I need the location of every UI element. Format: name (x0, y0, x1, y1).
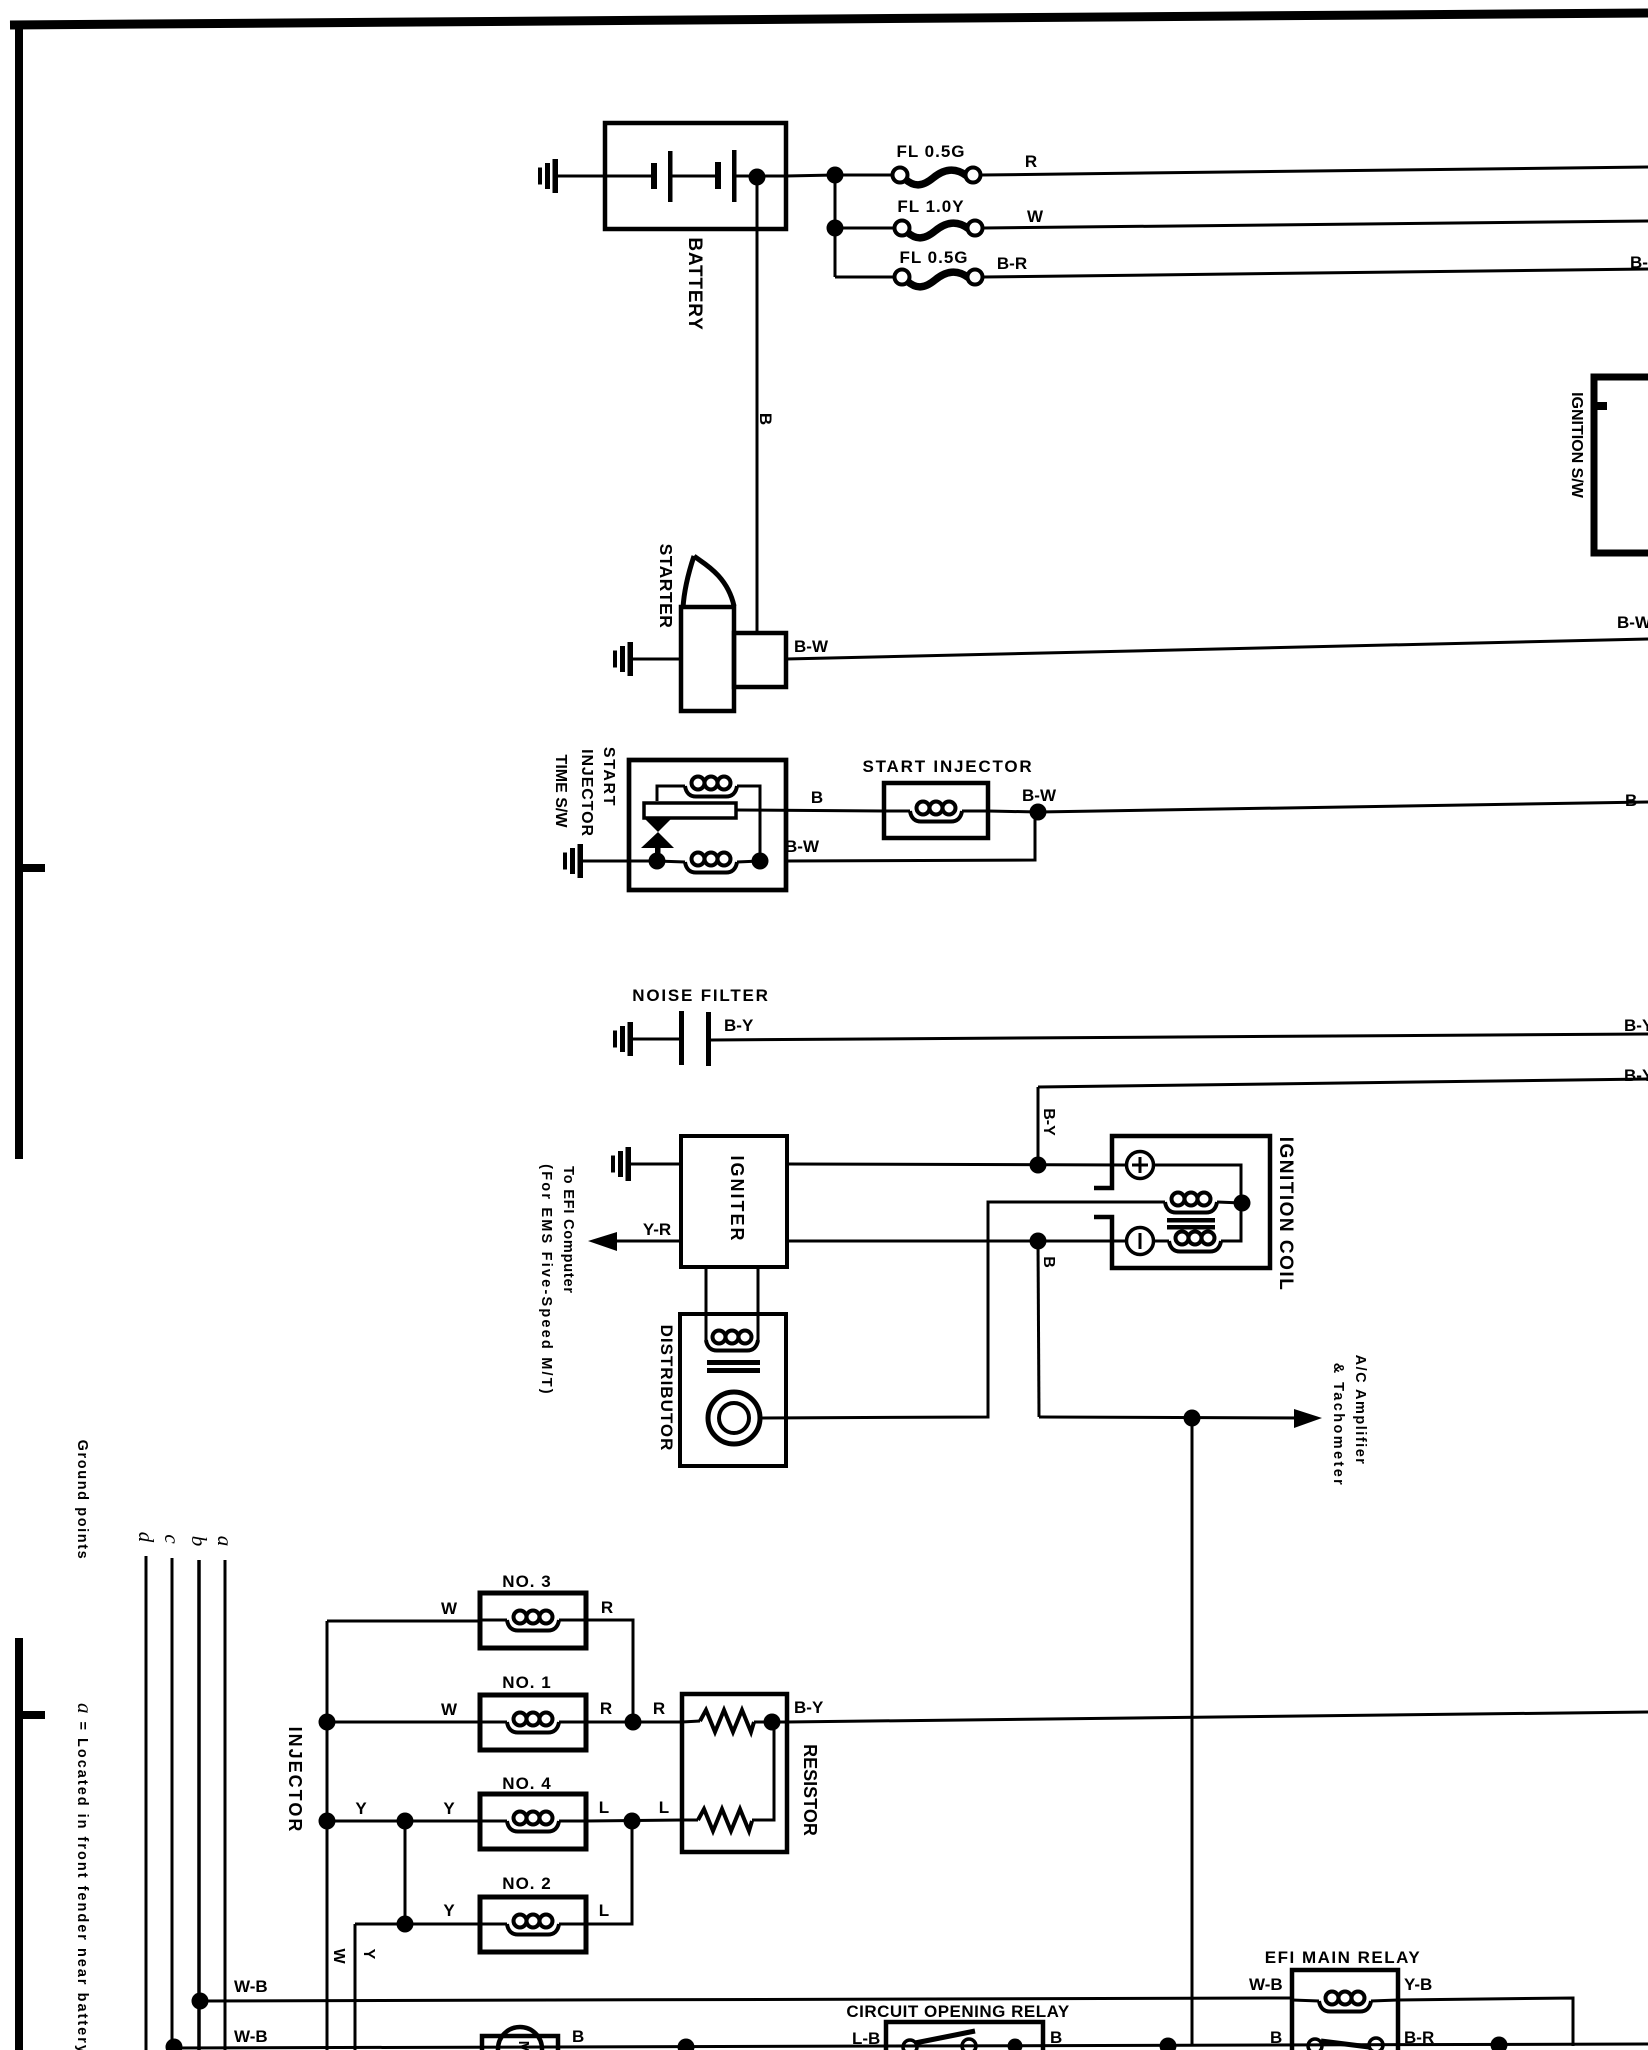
node tach junction (1184, 1410, 1201, 1427)
svg-text:B-W: B-W (1022, 786, 1057, 805)
svg-text:a: a (213, 1536, 237, 1547)
resistor element bottom (698, 1809, 752, 1831)
label R (resistor in) (653, 1699, 665, 1718)
wire NO.3 left (327, 1620, 480, 1623)
node R junction (625, 1714, 642, 1731)
wire NO.3 right (586, 1620, 633, 1722)
label STARTER (656, 544, 676, 629)
node B-R junction (1491, 2037, 1508, 2050)
wire igniter to coil minus (787, 1240, 1127, 1243)
svg-text:NO. 2: NO. 2 (502, 1874, 551, 1893)
time switch contact bar (644, 803, 736, 818)
svg-text:NO. 1: NO. 1 (502, 1673, 551, 1692)
svg-text:R: R (601, 1598, 613, 1617)
page border left upper segment (15, 21, 23, 1159)
distributor box (680, 1314, 786, 1466)
label ground point a (213, 1536, 237, 1547)
label B-W (time switch out) (785, 837, 820, 856)
label W (1027, 207, 1044, 226)
svg-text:B-W: B-W (1617, 613, 1648, 632)
svg-text:STARTER: STARTER (656, 544, 676, 629)
wire B-R to ignition switch (983, 269, 1648, 277)
svg-text:B-Y: B-Y (1624, 1066, 1648, 1085)
time switch heater coil top (685, 777, 737, 797)
svg-text:RESISTOR: RESISTOR (800, 1744, 820, 1836)
label ground point c (160, 1534, 184, 1544)
wire ground to battery (558, 175, 605, 178)
label A/C Amplifier (1352, 1355, 1368, 1466)
fuel pump motor (498, 2027, 542, 2050)
label a = Located in front fender near battery (73, 1703, 97, 2050)
svg-text:W: W (330, 1948, 347, 1964)
node ground b junction (192, 1993, 209, 2010)
svg-text:B-W: B-W (794, 637, 829, 656)
label W-B (lower) (234, 2027, 268, 2046)
resistor bottom leads (682, 1722, 774, 1820)
label FL 1.0Y (897, 197, 964, 216)
svg-text:Ground points: Ground points (74, 1440, 90, 1561)
node W junction NO.1 (319, 1714, 336, 1731)
wire W to ignition switch (983, 221, 1648, 228)
svg-text:Y: Y (443, 1901, 455, 1920)
label W (bus, rotated) (330, 1948, 347, 1964)
svg-text:Y: Y (360, 1949, 377, 1960)
start injector coil (910, 802, 962, 822)
wire R to ignition switch (981, 167, 1648, 175)
node igniter B (1030, 1233, 1047, 1250)
svg-text:M: M (515, 2041, 532, 2050)
injector NO.2 leads (480, 1923, 586, 1926)
svg-text:IGNITION S/W: IGNITION S/W (1568, 392, 1585, 499)
wire NO.1 right to resistor (586, 1721, 682, 1724)
svg-text:B-Y: B-Y (724, 1016, 754, 1035)
wire B from contact bar to start injector (736, 810, 884, 811)
start injector box (884, 783, 988, 838)
label Y (bus, rotated) (360, 1949, 377, 1960)
label Y (NO.4 outer) (355, 1799, 367, 1818)
distributor rotor (708, 1392, 760, 1444)
svg-text:DISTRIBUTOR: DISTRIBUTOR (657, 1325, 676, 1452)
label INJECTOR (time switch) (578, 749, 595, 837)
svg-text:B-R: B-R (997, 254, 1027, 273)
label START (time switch) (600, 747, 617, 807)
wire B bottom bus (174, 2044, 1648, 2048)
resistor box (682, 1694, 787, 1852)
battery label (684, 237, 705, 330)
svg-text:FL 0.5G: FL 0.5G (896, 142, 965, 161)
resistor top leads (682, 1721, 787, 1722)
injector NO.4 leads (480, 1820, 586, 1823)
svg-text:L: L (599, 1901, 609, 1920)
svg-text:BATTERY: BATTERY (684, 237, 705, 330)
ignition coil primary winding (1165, 1193, 1217, 1213)
svg-text:B-R: B-R (1404, 2028, 1434, 2047)
arrow to EFI computer (588, 1232, 617, 1251)
injector NO.4 box (480, 1794, 586, 1849)
wire coil top left lead (657, 786, 685, 801)
injector NO.2 coil (507, 1915, 559, 1935)
svg-text:B: B (1270, 2028, 1282, 2047)
label B-R at right edge (1630, 253, 1648, 272)
wire NO.4 left (327, 1820, 480, 1823)
page border top (10, 13, 1648, 25)
svg-text:Y-B: Y-B (1404, 1975, 1432, 1994)
node time switch right (752, 853, 769, 870)
node Y junction NO.4 left (319, 1813, 336, 1830)
svg-text:NO. 3: NO. 3 (502, 1572, 551, 1591)
circuit opening relay contacts (903, 2031, 976, 2050)
label INJECTOR (285, 1727, 305, 1834)
fusible link FL 0.5G (top) (893, 168, 981, 185)
svg-text:W: W (441, 1599, 458, 1618)
node coil common (1234, 1195, 1251, 1212)
wire Y link NO.4 to NO.2 (404, 1821, 407, 1924)
svg-text:a = Located in front fender ne: a = Located in front fender near battery (73, 1703, 97, 2050)
time switch heater coil bottom (685, 853, 737, 873)
wire ground line c (171, 1558, 174, 2047)
svg-text:IGNITION COIL: IGNITION COIL (1275, 1137, 1296, 1292)
svg-text:A/C Amplifier: A/C Amplifier (1352, 1355, 1368, 1466)
svg-text:B-R: B-R (1630, 253, 1648, 272)
fuel pump bracket (482, 2036, 558, 2050)
label W-B (relay) (1249, 1975, 1283, 1994)
svg-text:R: R (653, 1699, 665, 1718)
label B-Y at right edge (coil line) (1624, 1066, 1648, 1085)
EFI main relay box (1292, 1970, 1398, 2050)
starter motor body (681, 607, 734, 711)
wire ground to noise filter (633, 1038, 679, 1041)
label Y-B (relay) (1404, 1975, 1432, 1994)
start injector time switch box (629, 760, 786, 890)
label NO. 2 (502, 1874, 551, 1893)
wire ground into time switch (583, 860, 657, 863)
label NOISE FILTER (632, 986, 769, 1005)
wire secondary leads (1154, 1203, 1241, 1241)
distributor pickup coil (706, 1331, 758, 1351)
svg-text:b: b (187, 1536, 211, 1547)
injector NO.1 leads (480, 1721, 586, 1724)
svg-text:R: R (1025, 152, 1037, 171)
label W (NO.1) (441, 1700, 458, 1719)
label W (NO.3) (441, 1599, 458, 1618)
label DISTRIBUTOR (657, 1325, 676, 1452)
node resistor common (764, 1714, 781, 1731)
label L (NO.2) (599, 1901, 609, 1920)
injector NO.4 coil (507, 1812, 559, 1832)
resistor element top (700, 1710, 754, 1732)
starter drive crescent (683, 556, 734, 608)
node time switch left (649, 853, 666, 870)
wire ground line b (197, 1560, 201, 2050)
label NO. 1 (502, 1673, 551, 1692)
node igniter B-Y (1030, 1157, 1047, 1174)
wire injector W bus (326, 1621, 329, 2050)
svg-text:W-B: W-B (234, 1977, 268, 1996)
wire ground to starter (633, 658, 681, 661)
node Y junction NO.2 (397, 1916, 414, 1933)
svg-text:L-B: L-B (852, 2029, 880, 2048)
svg-text:INJECTOR: INJECTOR (285, 1727, 305, 1834)
time switch bimetal contact (641, 817, 674, 862)
label CIRCUIT OPENING RELAY (846, 2002, 1070, 2021)
node relay contact (1008, 2039, 1023, 2050)
label B (relay switch) (1270, 2028, 1282, 2047)
wire ground line a (224, 1560, 227, 2050)
wire NO.4 right to resistor (586, 1820, 682, 1821)
EFI main relay contacts (1308, 2038, 1383, 2050)
label Y (NO.4) (443, 1799, 455, 1818)
wire battery to fuse junction (786, 175, 835, 176)
wire label B (battery feed) (756, 413, 775, 425)
label Y (NO.2) (443, 1901, 455, 1920)
svg-text:R: R (600, 1699, 612, 1718)
ignition coil plus terminal (1127, 1152, 1154, 1179)
label NO. 4 (502, 1774, 551, 1793)
distributor core bars (707, 1360, 760, 1373)
wire injector Y bus (354, 1924, 357, 2050)
label R (NO.3) (601, 1598, 613, 1617)
wire igniter B down to tach line (1038, 1241, 1039, 1417)
EFI main relay coil (1319, 1992, 1371, 2012)
svg-text:W: W (441, 1700, 458, 1719)
arrow to A/C amplifier (1294, 1409, 1322, 1428)
injector NO.2 box (480, 1897, 586, 1952)
label B (relay right) (1050, 2028, 1062, 2047)
label To EFI Computer (560, 1166, 576, 1294)
label B-W at right edge (1617, 613, 1648, 632)
wire to FL1 (835, 174, 893, 177)
label Y-R (643, 1220, 671, 1239)
node tach line to B bus (1160, 2038, 1177, 2050)
ground (noise filter) (613, 1022, 633, 1056)
wire to FL3 (835, 276, 895, 279)
svg-text:B: B (572, 2027, 584, 2046)
label B-Y (resistor out) (794, 1698, 824, 1717)
label M (fuel pump) (515, 2041, 532, 2050)
svg-text:B-Y: B-Y (1624, 1016, 1648, 1035)
injector NO.3 box (480, 1593, 586, 1648)
label START INJECTOR (863, 757, 1034, 776)
svg-text:FL 0.5G: FL 0.5G (899, 248, 968, 267)
label ground point b (187, 1536, 211, 1547)
wire coil top right lead (737, 786, 760, 853)
node Y junction NO.4 mid (397, 1813, 414, 1830)
wire B-W starter to right edge (786, 639, 1648, 659)
wire NO.2 right riser (586, 1821, 632, 1924)
battery cell plates (651, 150, 737, 202)
wire W-B to EFI main relay (200, 1998, 1292, 2001)
label IGNITER (727, 1155, 747, 1242)
svg-text:L: L (599, 1798, 609, 1817)
noise filter capacitor plates (679, 1011, 711, 1066)
node B-W junction (1030, 804, 1047, 821)
svg-text:FL 1.0Y: FL 1.0Y (897, 197, 964, 216)
fusible link FL 1.0Y (895, 221, 983, 238)
wire Y-R to EFI computer (600, 1240, 681, 1243)
ignition coil box (1094, 1136, 1270, 1268)
ground (starter) (613, 642, 633, 676)
wire B-Y noise filter to right edge (711, 1034, 1648, 1040)
label B-W (starter) (794, 637, 829, 656)
wire start injector to node (988, 811, 1038, 812)
label ground point d (134, 1532, 158, 1543)
svg-text:NOISE FILTER: NOISE FILTER (632, 986, 769, 1005)
wire igniter to distributor pickup leads (706, 1267, 758, 1340)
node ground c junction (166, 2039, 183, 2050)
page border left lower segment (15, 1638, 23, 2050)
border tick mark 1 (19, 864, 45, 872)
svg-text:c: c (160, 1534, 184, 1544)
wire B-Y junction riser (1037, 1087, 1040, 1165)
fusible link FL 0.5G (bottom) (895, 270, 983, 287)
node fuel pump junction (678, 2039, 695, 2050)
svg-text:L: L (659, 1798, 669, 1817)
wire NO.2 left (355, 1923, 480, 1926)
label IGNITION COIL (1275, 1137, 1296, 1292)
label FL 0.5G (bottom) (899, 248, 968, 267)
svg-text:TIME S/W: TIME S/W (552, 755, 569, 829)
wire fuse bus vertical (834, 175, 837, 277)
svg-text:B-W: B-W (785, 837, 820, 856)
label B (igniter out) (1040, 1256, 1057, 1268)
svg-text:B-Y: B-Y (1040, 1108, 1057, 1136)
svg-text:CIRCUIT OPENING RELAY: CIRCUIT OPENING RELAY (846, 2002, 1070, 2021)
injector NO.1 coil (507, 1713, 559, 1733)
label B-R (997, 254, 1027, 273)
svg-text:B: B (811, 788, 823, 807)
label Ground points (74, 1440, 90, 1561)
wire tach junction down to relay B line (1191, 1418, 1194, 2046)
label L-B (852, 2029, 880, 2048)
svg-text:Y-R: Y-R (643, 1220, 671, 1239)
label R (1025, 152, 1037, 171)
ignition switch box (1594, 377, 1648, 553)
label RESISTOR (800, 1744, 820, 1836)
svg-text:START: START (600, 747, 617, 807)
label B-Y (noise filter) (724, 1016, 754, 1035)
svg-text:INJECTOR: INJECTOR (578, 749, 595, 837)
border tick mark 2 (19, 1711, 45, 1719)
svg-text:B-Y: B-Y (794, 1698, 824, 1717)
label FL 0.5G (top) (896, 142, 965, 161)
svg-text:B: B (1040, 1256, 1057, 1268)
wire ground to igniter (631, 1163, 681, 1166)
wire tach line (1039, 1417, 1313, 1418)
svg-text:EFI MAIN RELAY: EFI MAIN RELAY (1265, 1948, 1421, 1967)
svg-text:d: d (134, 1532, 158, 1543)
label B (start injector feed) (811, 788, 823, 807)
node L junction (624, 1813, 641, 1830)
svg-text:W-B: W-B (1249, 1975, 1283, 1994)
wire B-W to right edge (1038, 802, 1648, 812)
svg-text:Y: Y (443, 1799, 455, 1818)
wire B-Y ignition coil feed to right edge (1038, 1079, 1648, 1087)
label NO. 3 (502, 1572, 551, 1591)
label For EMS Five-Speed M/T (538, 1164, 554, 1396)
label EFI MAIN RELAY (1265, 1948, 1421, 1967)
label Tachometer (1330, 1363, 1346, 1487)
label B (fuel pump) (572, 2027, 584, 2046)
start injector coil leads (884, 810, 988, 813)
ground (battery) (538, 159, 558, 193)
wire Y-B from relay (1398, 1998, 1573, 2046)
svg-text:NO. 4: NO. 4 (502, 1774, 551, 1793)
svg-text:To EFI Computer: To EFI Computer (560, 1166, 576, 1294)
label B at right edge (1625, 791, 1637, 810)
label L (NO.4) (599, 1798, 609, 1817)
ground (igniter) (611, 1147, 631, 1181)
ignition coil secondary winding (1169, 1232, 1221, 1252)
svg-text:W-B: W-B (234, 2027, 268, 2046)
injector NO.1 box (480, 1695, 586, 1750)
label B-Y at right edge (noise filter line) (1624, 1016, 1648, 1035)
ignition coil minus terminal (1127, 1228, 1154, 1255)
injector NO.3 coil (507, 1611, 559, 1631)
svg-text:B: B (1625, 791, 1637, 810)
ground (start injector time switch) (563, 844, 583, 878)
circuit opening relay box (886, 2022, 1043, 2050)
label IGNITION S/W (1568, 392, 1585, 499)
wire plus terminal to secondary top (1154, 1165, 1241, 1196)
wire battery down to starter (756, 177, 759, 633)
igniter box (681, 1136, 787, 1267)
label L (resistor in) (659, 1798, 669, 1817)
svg-text:W: W (1027, 207, 1044, 226)
svg-text:& Tachometer: & Tachometer (1330, 1363, 1346, 1487)
node fuse junction 1 (827, 167, 844, 184)
wire NO.1 left (327, 1721, 480, 1724)
node battery + terminal (749, 169, 766, 186)
svg-text:START INJECTOR: START INJECTOR (863, 757, 1034, 776)
wire to FL2 (835, 227, 895, 230)
ignition coil core (1167, 1218, 1215, 1230)
svg-text:IGNITER: IGNITER (727, 1155, 747, 1242)
svg-text:B: B (1050, 2028, 1062, 2047)
EFI main relay coil leads (1292, 2000, 1398, 2001)
battery internal wires (605, 175, 786, 178)
injector NO.3 leads (480, 1619, 586, 1622)
wire ground line d (145, 1556, 148, 2050)
label TIME S/W (time switch) (552, 755, 569, 829)
label W-B (upper) (234, 1977, 268, 1996)
wire B-Y resistor to right edge (787, 1712, 1648, 1722)
svg-text:B: B (756, 413, 775, 425)
svg-text:(For EMS Five-Speed M/T): (For EMS Five-Speed M/T) (538, 1164, 554, 1396)
wire igniter to coil plus (787, 1164, 1126, 1165)
label B-R (relay switch) (1404, 2028, 1434, 2047)
starter solenoid (734, 633, 786, 687)
wire B-W from time switch (786, 812, 1035, 861)
wire rotor to coil primary (760, 1202, 1094, 1418)
wire coil bottom leads (657, 861, 760, 862)
svg-text:Y: Y (355, 1799, 367, 1818)
label R (NO.1) (600, 1699, 612, 1718)
label B-W (junction) (1022, 786, 1057, 805)
node fuse junction 2 (827, 220, 844, 237)
label B-Y (riser) (1040, 1108, 1057, 1136)
wire primary leads (1094, 1202, 1242, 1203)
battery box (605, 123, 786, 229)
